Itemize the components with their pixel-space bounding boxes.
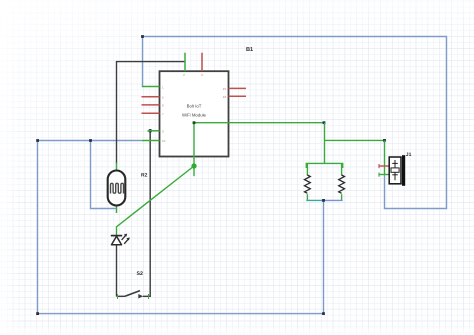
svg-text:Bolt IoT: Bolt IoT [187, 103, 202, 108]
wire green vertical to resistor top [324, 123, 326, 164]
chip left pin red y113.3 [142, 112, 160, 114]
LED triangle [112, 236, 122, 245]
edge fade left [0, 0, 22, 335]
junction dot net B bottom-left corner [36, 312, 39, 315]
switch S2 lever [125, 291, 140, 297]
wire blue net A top: J1 to chip pin1 loop [143, 37, 447, 209]
resistor pair bottom bar right half (blue) [324, 199, 343, 201]
fade top band over grid [0, 0, 474, 48]
chip top pin 3 (red) [201, 53, 203, 71]
resistor left zigzag [305, 175, 311, 193]
wire green net: chip bottom pin across to resistors and J1 [194, 122, 324, 124]
chip left pin red y104.9 [142, 104, 160, 106]
resistor right bottom stub [341, 194, 343, 200]
junction square at (384.5,140.4) [383, 139, 386, 142]
switch S2 green tick right [148, 294, 150, 299]
chip B1 Bolt IoT WiFi Module body [160, 71, 229, 156]
wire green vertical to J1 pin [384, 140, 386, 175]
svg-text:16: 16 [223, 95, 227, 99]
junction dot resistor bottom center [322, 199, 325, 202]
switch S2 left contact lead [117, 295, 126, 297]
LED cathode bar [111, 235, 122, 237]
resistor pair bottom bar left half (teal) [306, 199, 323, 201]
junction dot net B at (90.7,140) [89, 139, 92, 142]
chip left pin 6 (green) [142, 140, 160, 142]
svg-text:B1: B1 [246, 47, 253, 53]
svg-text:10: 10 [162, 139, 166, 143]
chip left pin 1 (green) wire stub [142, 86, 160, 88]
wire black from chip top pin2 to LDR top [117, 62, 186, 164]
wire black from chip pin5 down to switch S2 [143, 131, 150, 296]
LED emission arrow 2 [124, 237, 130, 243]
svg-text:S2: S2 [137, 271, 143, 277]
wire blue net B: resistors to chip pin6 loop [38, 141, 324, 314]
switch S2 green tick left [117, 294, 119, 299]
wire green vertical through chip bottom pin [193, 123, 195, 177]
junction green dot at (194,166) [191, 163, 196, 168]
edge fade bottom [0, 325, 474, 335]
svg-text:15: 15 [223, 87, 227, 91]
LED emission arrow 1 [122, 234, 128, 240]
resistor right terminal stub [341, 163, 343, 175]
svg-text:R2: R2 [141, 173, 148, 179]
junction dot net B bottom-right corner [322, 312, 325, 315]
chip top pin 2 (green) [184, 53, 186, 71]
wire black LED to switch [116, 245, 118, 296]
svg-text:WiFi Module: WiFi Module [182, 112, 206, 117]
J1 red pin stub [379, 164, 389, 168]
wire green horizontal to J1 [324, 139, 385, 141]
svg-text:J1: J1 [406, 152, 412, 158]
LDR R2 top terminal stub (green) [116, 163, 118, 171]
junction square at (194,122.7) [193, 121, 196, 124]
resistor right zigzag [339, 175, 345, 193]
resistor left bottom stub [306, 194, 308, 200]
junction dot at chip pin5 [148, 129, 152, 133]
resistor left terminal stubs [306, 163, 308, 175]
chip right pin red y88.4 [229, 87, 247, 89]
chip left pin red y96.7 [142, 96, 160, 98]
LDR R2 bottom terminal stub (green) [116, 206, 118, 214]
junction blue net A corner dot [141, 35, 144, 38]
buzzer J1 body [389, 155, 405, 186]
wire blue net B branch to LDR bottom [91, 141, 116, 209]
LDR R2 body [108, 171, 126, 206]
junction square at (324,122.7) [323, 121, 326, 124]
vignette top-left over grid [0, 0, 300, 230]
junction dot net B at (37.5,140) [36, 139, 39, 142]
wire green diagonal to LED [117, 166, 195, 235]
resistor pair top bar (green) [306, 163, 342, 168]
chip right pin red y96.2 [229, 95, 247, 97]
J1 green pin stub [379, 173, 389, 177]
chip left pin 5 (green) [148, 130, 160, 132]
